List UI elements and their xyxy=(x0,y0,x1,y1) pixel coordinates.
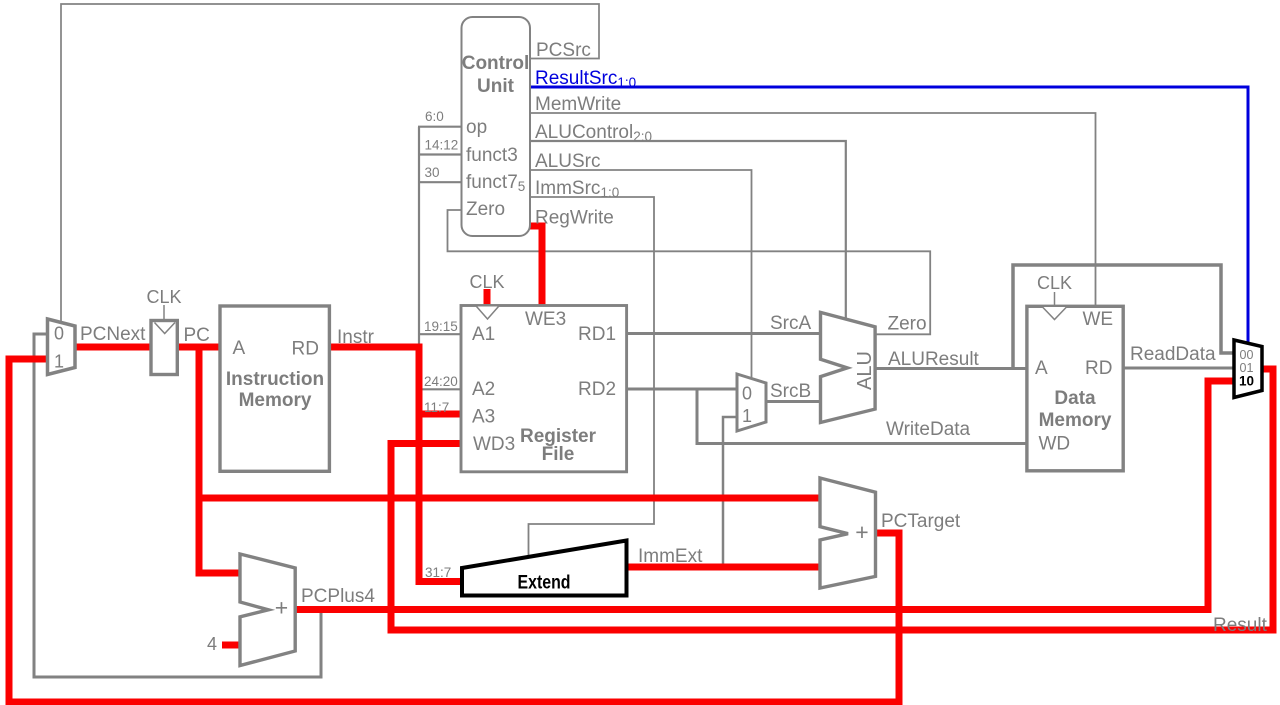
svg-text:0: 0 xyxy=(742,384,752,404)
wire PCNext xyxy=(75,344,151,351)
adder PCTarget xyxy=(820,478,876,588)
wire slice 31:7 to Extend xyxy=(416,578,463,585)
wire SrcB xyxy=(766,400,819,403)
svg-text:PCSrc: PCSrc xyxy=(536,40,591,61)
wire PCSrc select loop xyxy=(61,4,599,323)
svg-text:PCTarget: PCTarget xyxy=(881,511,961,532)
svg-text:SrcA: SrcA xyxy=(770,313,812,334)
svg-text:WD: WD xyxy=(1039,434,1071,455)
wire ImmExt branch to SrcB mux input 1 xyxy=(723,417,737,564)
block Data Memory xyxy=(1027,306,1123,471)
block Instruction Memory xyxy=(220,306,329,471)
svg-text:WD3: WD3 xyxy=(473,434,515,455)
alu ALU xyxy=(821,312,876,422)
wire CLK into Data Memory xyxy=(1054,292,1056,306)
svg-text:Memory: Memory xyxy=(239,390,312,411)
clock wedge Register File xyxy=(477,307,499,320)
wire RegWrite to WE3 xyxy=(529,226,542,306)
wire Result xyxy=(391,369,1273,630)
svg-text:Result: Result xyxy=(1213,615,1268,636)
svg-text:24:20: 24:20 xyxy=(424,374,458,389)
wire slice 19:15 to A1 xyxy=(418,333,461,335)
clock wedge Data Memory xyxy=(1043,307,1067,320)
svg-text:ALUResult: ALUResult xyxy=(888,349,980,370)
wire slice 6:0 to op xyxy=(418,126,461,128)
mux Result xyxy=(1234,340,1262,398)
svg-text:1: 1 xyxy=(742,406,752,426)
svg-text:WE: WE xyxy=(1083,309,1114,330)
svg-text:6:0: 6:0 xyxy=(425,109,444,124)
svg-text:RD: RD xyxy=(292,339,319,360)
wire Instr gray bus xyxy=(418,127,420,389)
svg-text:CLK: CLK xyxy=(1037,273,1072,293)
svg-text:14:12: 14:12 xyxy=(425,138,459,153)
svg-text:WriteData: WriteData xyxy=(886,419,971,440)
mux PCNext xyxy=(48,319,76,375)
block Extend xyxy=(462,541,627,596)
wire WriteData xyxy=(697,389,1028,444)
svg-text:30: 30 xyxy=(425,165,440,180)
svg-text:00: 00 xyxy=(1240,348,1254,362)
block Control Unit xyxy=(462,17,531,236)
svg-text:31:7: 31:7 xyxy=(425,565,451,580)
svg-text:Instruction: Instruction xyxy=(226,369,324,390)
clock wedge PC register xyxy=(155,323,176,334)
wire PC branch down to adders xyxy=(199,344,240,573)
svg-text:Memory: Memory xyxy=(1039,410,1112,431)
svg-text:Extend: Extend xyxy=(518,573,571,594)
svg-text:Data: Data xyxy=(1054,388,1096,409)
wire slice 14:12 to funct3 xyxy=(418,153,461,155)
wire ALUControl xyxy=(529,141,846,320)
wire RD2 xyxy=(628,388,737,391)
wire PCTarget feedback to PC mux input 1 xyxy=(9,359,899,702)
svg-text:ALU: ALU xyxy=(854,351,876,390)
svg-text:Zero: Zero xyxy=(888,314,927,335)
svg-text:CLK: CLK xyxy=(146,287,181,307)
wire ReadData xyxy=(1122,367,1236,370)
svg-text:MemWrite: MemWrite xyxy=(535,94,621,115)
svg-text:+: + xyxy=(275,595,288,621)
svg-text:RD1: RD1 xyxy=(578,324,616,345)
svg-text:ALUControl2:0: ALUControl2:0 xyxy=(535,122,652,144)
svg-text:19:15: 19:15 xyxy=(424,319,458,334)
wire Instr red bus xyxy=(416,344,423,582)
svg-text:4: 4 xyxy=(207,634,217,654)
svg-text:A: A xyxy=(1035,358,1048,379)
svg-text:0: 0 xyxy=(54,324,64,344)
svg-text:ImmSrc1:0: ImmSrc1:0 xyxy=(535,178,619,200)
wire ALUSrc xyxy=(529,170,752,379)
wire PCPlus4 loop to PC mux input 0 xyxy=(34,334,321,677)
svg-text:Control: Control xyxy=(462,53,530,74)
svg-text:A: A xyxy=(233,338,246,359)
wire slice 24:20 to A2 xyxy=(418,388,461,390)
wire Instr xyxy=(329,344,423,351)
wire PC xyxy=(177,344,220,351)
svg-text:CLK: CLK xyxy=(469,272,504,292)
svg-text:PC: PC xyxy=(184,325,210,346)
svg-text:Zero: Zero xyxy=(466,199,505,220)
svg-text:SrcB: SrcB xyxy=(770,381,811,402)
svg-text:funct75: funct75 xyxy=(466,172,525,194)
wire ALUResult xyxy=(876,367,1028,370)
wire CLK into PC register xyxy=(163,305,165,321)
wire PC to PCTarget adder xyxy=(199,495,820,502)
svg-text:10: 10 xyxy=(1239,374,1254,389)
register PC xyxy=(151,321,177,375)
svg-text:ALUSrc: ALUSrc xyxy=(535,151,600,172)
adder PCPlus4 xyxy=(240,554,295,666)
wire WD3 xyxy=(388,440,462,447)
wire ImmExt xyxy=(626,564,820,571)
svg-text:1: 1 xyxy=(54,352,64,372)
svg-text:RD: RD xyxy=(1085,358,1112,379)
svg-text:A3: A3 xyxy=(472,407,495,428)
svg-text:File: File xyxy=(542,444,575,465)
svg-text:+: + xyxy=(855,519,868,545)
wire MemWrite xyxy=(529,113,1096,305)
svg-text:Instr: Instr xyxy=(337,327,375,348)
svg-text:PCPlus4: PCPlus4 xyxy=(301,586,375,607)
svg-text:RD2: RD2 xyxy=(578,379,616,400)
svg-text:RegWrite: RegWrite xyxy=(535,208,614,229)
svg-text:11:7: 11:7 xyxy=(424,400,449,415)
wire PCPlus4 to Result mux input 10 xyxy=(295,381,1235,610)
svg-text:ResultSrc1:0: ResultSrc1:0 xyxy=(535,68,636,90)
svg-text:PCNext: PCNext xyxy=(80,324,146,345)
svg-text:Unit: Unit xyxy=(477,76,515,97)
svg-text:ImmExt: ImmExt xyxy=(638,546,703,567)
wire slice 30 to funct7 xyxy=(418,181,461,183)
mux SrcB xyxy=(737,374,766,431)
wire constant 4 stub xyxy=(222,642,240,649)
wire Zero feedback xyxy=(448,210,931,334)
svg-text:op: op xyxy=(466,117,487,138)
wire SrcA xyxy=(628,332,819,335)
block Register File xyxy=(461,306,627,472)
wire ALUResult loop to Result mux input 00 xyxy=(1013,265,1236,369)
svg-text:A1: A1 xyxy=(472,324,495,345)
svg-text:funct3: funct3 xyxy=(466,145,518,166)
wire slice 11:7 to A3 xyxy=(416,411,462,418)
svg-text:A2: A2 xyxy=(472,379,495,400)
svg-text:ReadData: ReadData xyxy=(1130,344,1216,365)
svg-text:WE3: WE3 xyxy=(525,309,566,330)
wire ImmSrc xyxy=(529,197,655,558)
wire CLK into Register File xyxy=(484,289,491,306)
wire ResultSrc blue xyxy=(529,87,1248,344)
